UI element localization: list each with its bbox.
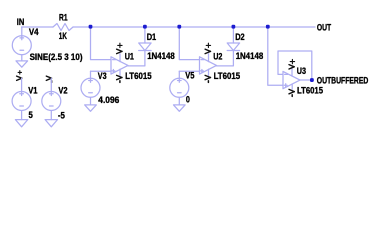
wire node A down to U1 input: [91, 27, 112, 60]
flag - above V2: [46, 76, 51, 82]
svg-text:1N4148: 1N4148: [236, 51, 264, 61]
svg-text:LT6015: LT6015: [214, 71, 241, 81]
svg-text:V3: V3: [98, 71, 107, 81]
svg-text:D1: D1: [147, 32, 157, 42]
ground below V2: [45, 120, 57, 127]
wire U3 feedback: [278, 51, 312, 80]
voltage source V4: [12, 27, 31, 61]
junction node D2: [232, 25, 236, 29]
svg-text:V1: V1: [28, 85, 37, 95]
svg-text:R1: R1: [59, 12, 68, 22]
svg-text:-5: -5: [58, 110, 65, 120]
flag - on U3 V- pin: [289, 89, 294, 96]
junction node U2 input: [177, 25, 181, 29]
wire IN to R1: [22, 26, 53, 28]
wire U3 output: [300, 79, 312, 81]
wire R1 to OUT: [73, 26, 315, 28]
svg-text:D2: D2: [235, 32, 245, 42]
svg-text:5: 5: [29, 110, 33, 120]
ground below V5: [174, 105, 186, 111]
svg-text:4.096: 4.096: [98, 95, 119, 105]
flag + above V1: [17, 71, 22, 81]
flag + on U2 V+ pin: [205, 43, 211, 53]
svg-text:V5: V5: [185, 71, 194, 81]
voltage source V2: [42, 78, 61, 119]
svg-text:SINE(2.5 3 10): SINE(2.5 3 10): [30, 52, 83, 62]
svg-text:0: 0: [186, 95, 190, 105]
svg-text:U3: U3: [297, 66, 306, 76]
junction node after R1: [89, 25, 93, 29]
voltage source V5: [170, 71, 189, 105]
svg-text:LT6015: LT6015: [297, 85, 323, 95]
flag - on U2 V- pin: [205, 75, 210, 82]
svg-text:OUTBUFFERED: OUTBUFFERED: [317, 76, 369, 86]
svg-text:IN: IN: [17, 17, 25, 27]
wire U2 output to D2: [217, 51, 234, 66]
op-amp U1: [111, 54, 128, 76]
junction node U3 input: [266, 25, 270, 29]
svg-text:U1: U1: [125, 51, 134, 61]
diode D1: [139, 43, 151, 51]
flag + on U3 V+ pin: [289, 59, 295, 69]
wire D2 to node: [232, 27, 234, 43]
flag - on U1 V- pin: [117, 75, 122, 82]
junction node U3 output: [310, 78, 314, 82]
wire V3 to U1 lower input: [91, 70, 112, 72]
ground below V3: [85, 105, 97, 111]
voltage source V1: [12, 78, 31, 119]
svg-text:V4: V4: [29, 27, 39, 37]
ground below V1: [15, 120, 27, 127]
svg-text:LT6015: LT6015: [125, 71, 152, 81]
voltage source V3: [81, 71, 100, 105]
wire node to U2 input: [179, 27, 199, 60]
ground below V4: [16, 61, 28, 67]
wire V5 to U2 lower input: [179, 70, 199, 72]
svg-text:OUT: OUT: [317, 23, 332, 33]
svg-text:V2: V2: [58, 86, 67, 96]
svg-text:1N4148: 1N4148: [147, 51, 175, 61]
wire U1 output to D1: [128, 51, 145, 66]
junction node D1: [143, 25, 147, 29]
op-amp U3: [283, 69, 300, 89]
flag + on U1 V+ pin: [117, 43, 123, 53]
wire D1 to node: [144, 27, 146, 43]
svg-text:U2: U2: [213, 51, 222, 61]
diode D2: [227, 43, 239, 51]
svg-text:1K: 1K: [59, 31, 67, 41]
resistor R1: [53, 24, 73, 31]
op-amp U2: [200, 54, 217, 76]
wire node to U3 non-inverting input: [268, 27, 283, 85]
